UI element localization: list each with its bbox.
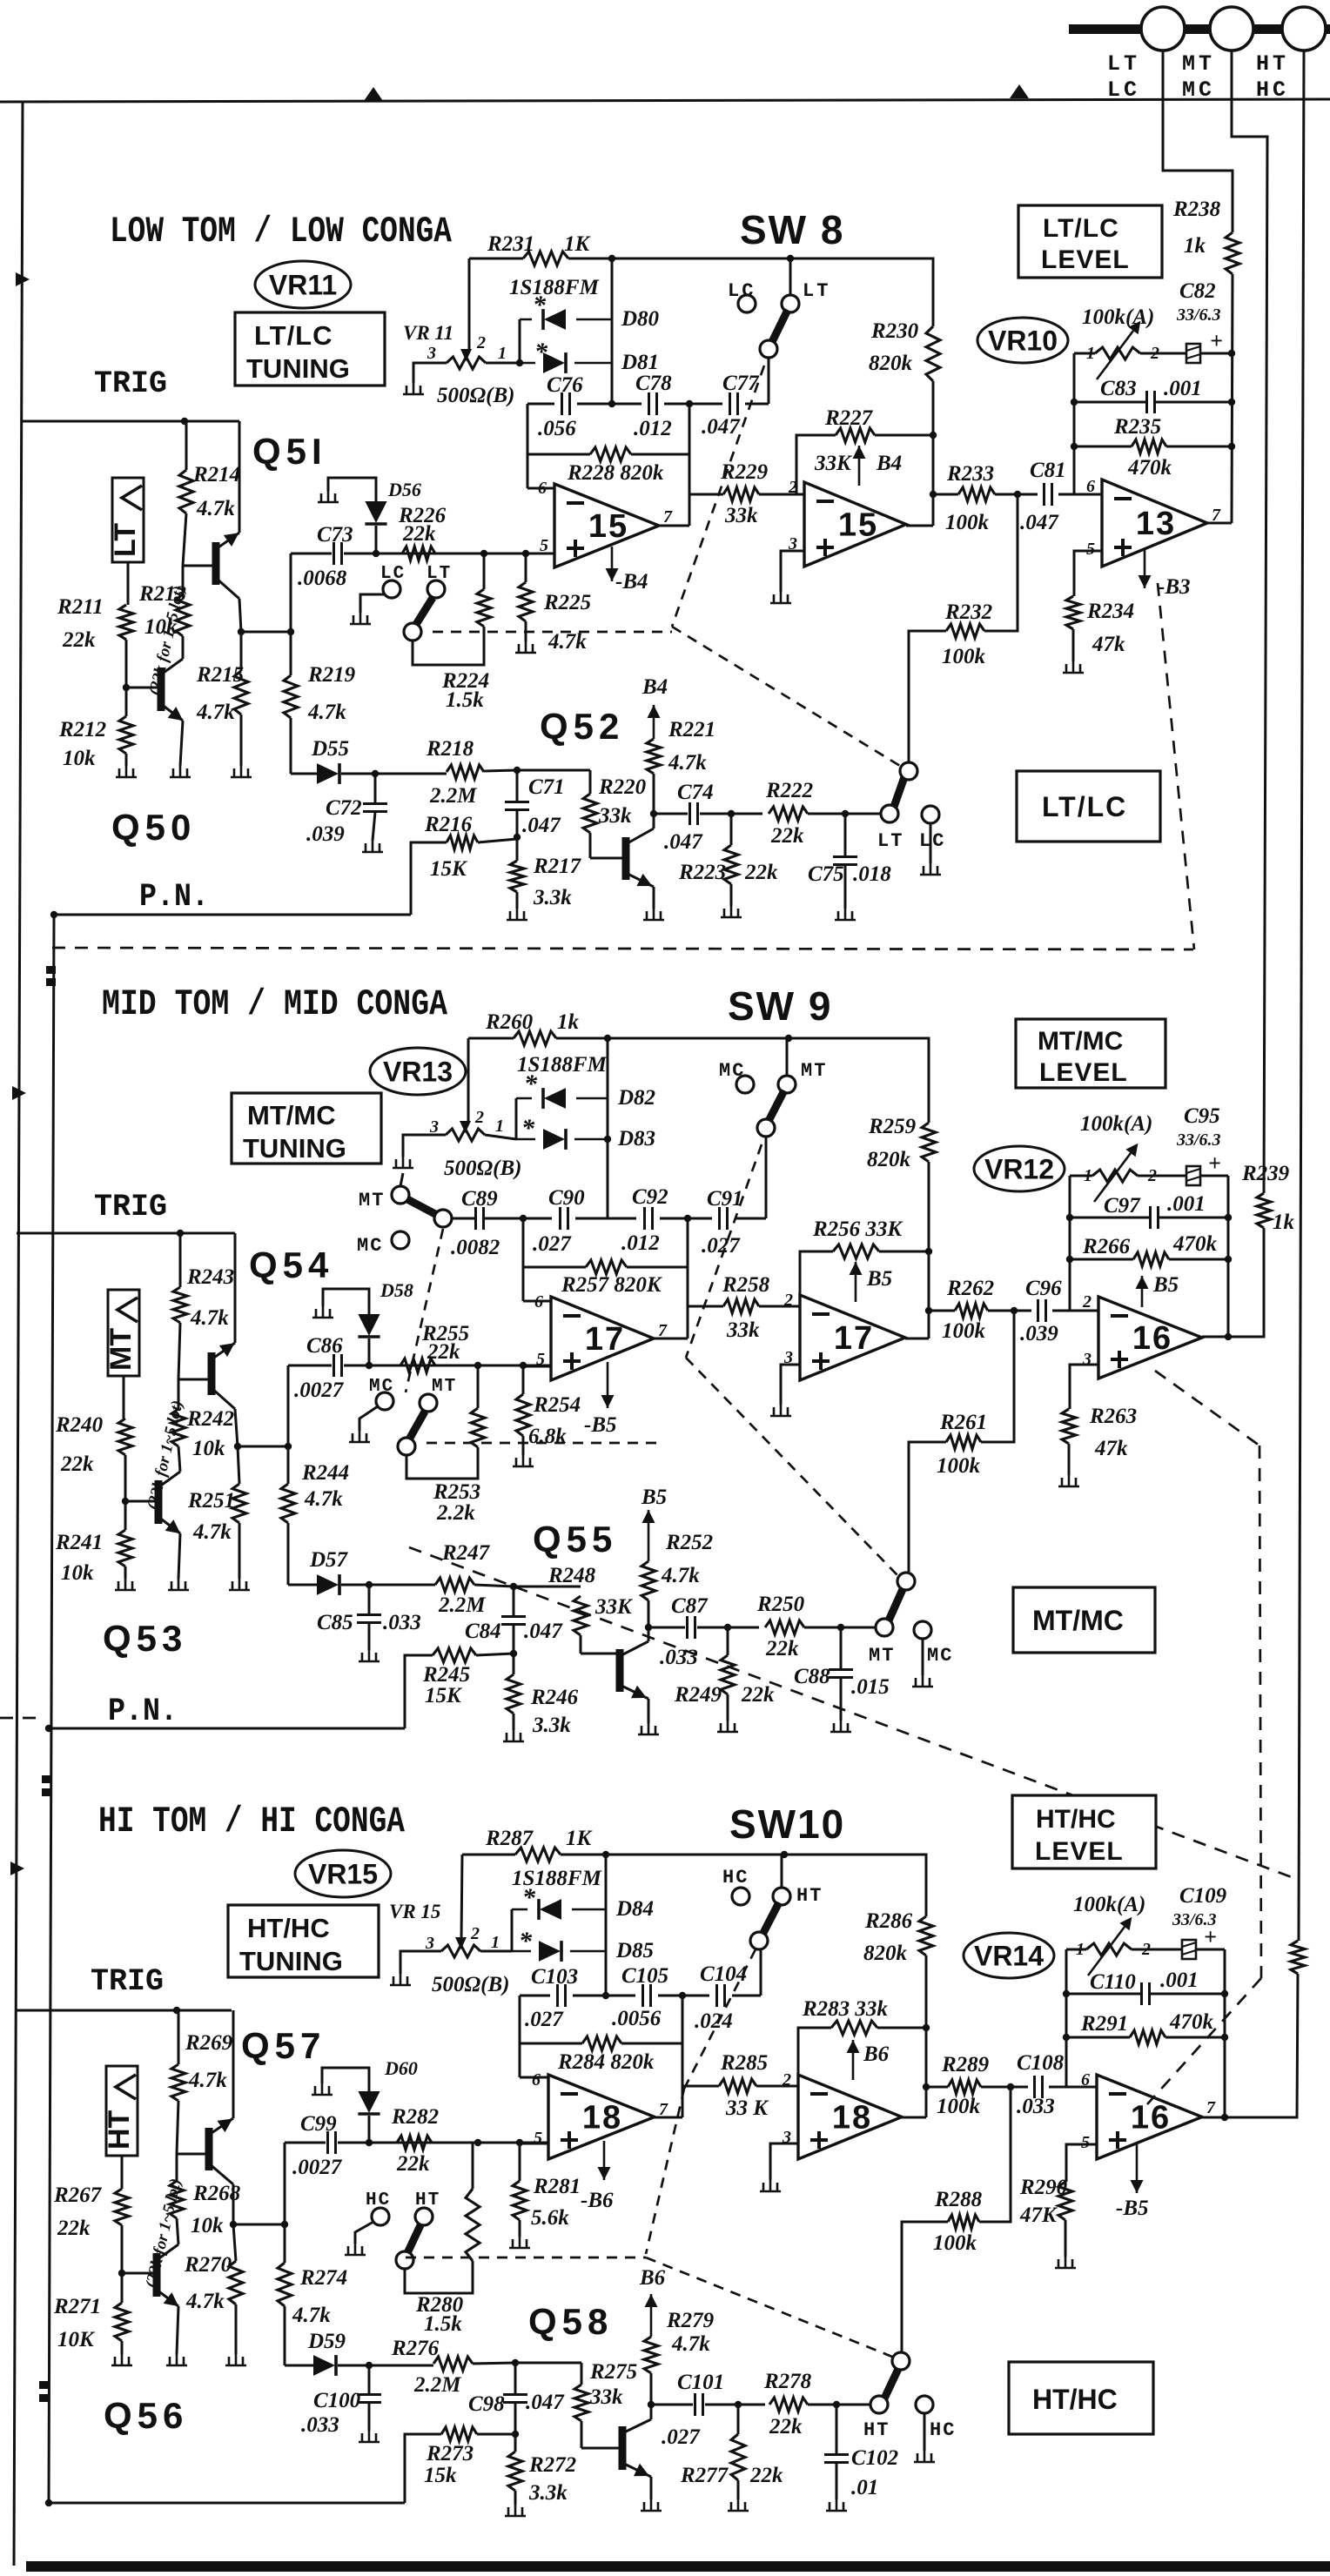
svg-text:C76: C76 bbox=[547, 373, 583, 397]
svg-text:.0082: .0082 bbox=[451, 1236, 500, 1259]
svg-text:4.7k: 4.7k bbox=[192, 1520, 232, 1544]
wire bbox=[735, 1218, 766, 1220]
ground bbox=[717, 1721, 738, 1732]
junction bbox=[281, 2221, 288, 2228]
capacitor C83 bbox=[1100, 377, 1202, 413]
wire bbox=[400, 1951, 441, 1974]
junction bbox=[1225, 1256, 1232, 1263]
wire gang link bbox=[427, 1442, 662, 1445]
resistor R217 bbox=[510, 855, 582, 909]
svg-text:R219: R219 bbox=[307, 663, 356, 687]
resistor R286 bbox=[863, 1909, 933, 1965]
wire bbox=[232, 2184, 235, 2224]
wire bbox=[653, 887, 655, 909]
wire bbox=[511, 1909, 514, 1951]
wire bbox=[284, 2224, 286, 2263]
resistor R220 bbox=[583, 775, 647, 833]
svg-text:C109: C109 bbox=[1179, 1884, 1227, 1908]
wire bbox=[759, 493, 796, 496]
node pin 1 bbox=[495, 1117, 504, 1136]
junction bbox=[785, 1035, 792, 1042]
node MC contact bbox=[369, 1377, 394, 1410]
wire bbox=[403, 1135, 446, 1157]
svg-text:.018: .018 bbox=[853, 862, 891, 886]
node section title bbox=[110, 211, 453, 252]
svg-text:MT: MT bbox=[432, 1377, 457, 1397]
svg-text:18: 18 bbox=[832, 2100, 872, 2137]
resistor R267 bbox=[53, 2184, 129, 2240]
wire bbox=[238, 1446, 239, 1484]
wire bbox=[462, 1854, 515, 1856]
wire bbox=[485, 1135, 516, 1139]
capacitor C96 bbox=[1020, 1277, 1062, 1345]
wire bbox=[659, 525, 689, 527]
wire bbox=[770, 2143, 798, 2180]
junction bbox=[510, 1650, 517, 1657]
svg-text:820k: 820k bbox=[867, 1148, 911, 1171]
op-amp 15a bbox=[554, 484, 659, 567]
wire bbox=[798, 2028, 831, 2086]
svg-text:33k: 33k bbox=[726, 1318, 760, 1342]
ground bbox=[515, 641, 536, 653]
wire bbox=[461, 1855, 462, 1939]
svg-text:2: 2 bbox=[782, 2070, 791, 2090]
capacitor C84 bbox=[465, 1617, 563, 1644]
junction bbox=[45, 1725, 52, 1732]
wire bbox=[239, 599, 241, 632]
svg-text:15K: 15K bbox=[430, 857, 468, 881]
junction bbox=[366, 2139, 373, 2146]
wire bbox=[922, 1639, 924, 1675]
node arrow bbox=[364, 87, 383, 101]
diode D81 bbox=[520, 351, 659, 374]
svg-text:33/6.3: 33/6.3 bbox=[1176, 305, 1221, 325]
wire bbox=[516, 892, 519, 909]
wire bbox=[556, 1037, 789, 1040]
svg-text:Q55: Q55 bbox=[533, 1519, 617, 1560]
junction bbox=[1225, 1333, 1232, 1340]
svg-text:HC: HC bbox=[722, 1867, 749, 1888]
svg-text:1k: 1k bbox=[557, 1010, 580, 1034]
resistor R222 bbox=[765, 779, 813, 848]
resistor R258 bbox=[722, 1273, 770, 1342]
node pin 3 bbox=[782, 2128, 791, 2147]
op-amp 17b bbox=[800, 1295, 905, 1380]
junction bbox=[520, 1362, 527, 1369]
svg-text:Q57: Q57 bbox=[241, 2025, 326, 2066]
svg-text:C95: C95 bbox=[1184, 1104, 1220, 1128]
ground bbox=[359, 1650, 380, 1661]
wire bbox=[1070, 1258, 1133, 1261]
node Q53 label bbox=[103, 1618, 187, 1659]
junction bbox=[230, 2221, 237, 2228]
wire bbox=[514, 2491, 517, 2505]
junction bbox=[474, 2139, 481, 2146]
svg-text:C90: C90 bbox=[548, 1186, 585, 1210]
resistor R285 bbox=[719, 2051, 769, 2120]
junction bbox=[474, 1362, 481, 1369]
ground bbox=[641, 2499, 662, 2511]
wire bbox=[840, 1627, 843, 1669]
svg-text:R245: R245 bbox=[422, 1663, 470, 1687]
wire bbox=[1052, 1310, 1070, 1312]
svg-text:33/6.3: 33/6.3 bbox=[1176, 1130, 1221, 1150]
wire bbox=[522, 1218, 525, 1301]
svg-text:33/6.3: 33/6.3 bbox=[1172, 1910, 1217, 1929]
op-amp 16 bbox=[1097, 2075, 1202, 2159]
wire bbox=[648, 1627, 685, 1629]
svg-text:22k: 22k bbox=[749, 2464, 783, 2487]
op-amp 17a bbox=[551, 1297, 654, 1380]
svg-text:LC: LC bbox=[728, 280, 756, 302]
svg-text:10k: 10k bbox=[191, 2214, 224, 2237]
wire bbox=[902, 2116, 926, 2119]
svg-text:.047: .047 bbox=[526, 2391, 565, 2414]
svg-text:.001: .001 bbox=[1160, 1969, 1199, 1992]
svg-text:2.2M: 2.2M bbox=[438, 1593, 486, 1617]
ground bbox=[1055, 2257, 1076, 2268]
svg-text:TRIG: TRIG bbox=[94, 1190, 167, 1224]
resistor R290 bbox=[1019, 2176, 1072, 2227]
wire bbox=[1225, 1974, 1298, 2117]
svg-text:100k: 100k bbox=[945, 511, 990, 534]
wire bbox=[1074, 352, 1095, 355]
wire bbox=[689, 404, 691, 526]
junction bbox=[645, 1624, 652, 1631]
node level box bbox=[1012, 1795, 1156, 1868]
node Q58 label bbox=[528, 2301, 613, 2342]
wire bbox=[737, 2480, 740, 2499]
wire bbox=[344, 1365, 551, 1367]
wire bbox=[1228, 1228, 1264, 1337]
wire bbox=[581, 2363, 583, 2385]
node pin 1 bbox=[498, 344, 507, 363]
svg-text:470k: 470k bbox=[1127, 456, 1172, 480]
junction bbox=[925, 1307, 932, 1314]
wire HT net bbox=[1299, 50, 1304, 1941]
svg-text:1k: 1k bbox=[1184, 234, 1206, 258]
wire gang link bbox=[433, 631, 672, 634]
resistor R279 bbox=[644, 2309, 715, 2373]
svg-text:22k: 22k bbox=[402, 522, 436, 546]
resistor R276 bbox=[391, 2337, 473, 2397]
node pin 2 bbox=[788, 478, 797, 497]
node pin 2 bbox=[1141, 1940, 1151, 1959]
wire bbox=[844, 814, 847, 856]
wire bbox=[988, 1310, 1031, 1312]
svg-text:LC: LC bbox=[919, 830, 945, 852]
svg-text:HT: HT bbox=[1256, 51, 1289, 77]
svg-text:SW10: SW10 bbox=[729, 1801, 845, 1847]
svg-text:.027: .027 bbox=[525, 2008, 564, 2031]
wire bbox=[373, 812, 375, 841]
svg-text:R256 33K: R256 33K bbox=[812, 1218, 903, 1241]
node VR10 oval bbox=[977, 318, 1068, 363]
node pin 2 bbox=[470, 1924, 480, 1943]
resistor R268 bbox=[170, 2181, 241, 2237]
wire section boundary bbox=[1158, 583, 1194, 949]
svg-text:4.7k: 4.7k bbox=[196, 701, 235, 724]
junction bbox=[650, 810, 657, 817]
svg-text:.047: .047 bbox=[524, 1620, 563, 1643]
wire bbox=[784, 1855, 926, 1916]
capacitor C108 bbox=[1017, 2051, 1065, 2118]
wire bbox=[125, 754, 128, 766]
wire bbox=[568, 258, 790, 260]
wire bbox=[756, 2085, 798, 2088]
svg-text:.027: .027 bbox=[662, 2425, 701, 2449]
wire gang link bbox=[672, 627, 900, 766]
svg-text:100k: 100k bbox=[942, 645, 986, 668]
wire bbox=[338, 2142, 548, 2144]
power -B5 bbox=[601, 1362, 615, 1408]
wire bbox=[513, 1714, 515, 1730]
svg-text:2: 2 bbox=[783, 1291, 793, 1310]
wire bbox=[621, 2043, 682, 2045]
wire bbox=[527, 487, 554, 490]
wire bbox=[607, 1038, 609, 1218]
svg-text:LT/LC: LT/LC bbox=[1042, 791, 1127, 822]
svg-text:R271: R271 bbox=[53, 2295, 101, 2318]
power B6 bbox=[645, 2294, 658, 2337]
resistor R223 bbox=[678, 845, 778, 884]
node 100k(A) label bbox=[1082, 305, 1154, 329]
node B6 label bbox=[863, 2043, 890, 2066]
svg-text:500Ω(B): 500Ω(B) bbox=[437, 384, 514, 407]
svg-text:C97: C97 bbox=[1104, 1194, 1141, 1218]
wire bbox=[180, 721, 183, 766]
junction bbox=[123, 684, 130, 691]
node HC contact bbox=[916, 2396, 956, 2441]
wire bbox=[519, 319, 521, 363]
svg-text:VR 11: VR 11 bbox=[403, 322, 453, 344]
svg-text:3.3k: 3.3k bbox=[533, 886, 572, 909]
node lot note bbox=[142, 2177, 185, 2290]
svg-text:R290: R290 bbox=[1019, 2176, 1068, 2199]
node pin 2 bbox=[782, 2070, 791, 2090]
node MT label bbox=[1182, 51, 1215, 77]
svg-text:MC: MC bbox=[927, 1645, 953, 1667]
junction bbox=[781, 1851, 788, 1858]
node asterisk bbox=[524, 1070, 538, 1098]
node SW9 label bbox=[728, 983, 832, 1029]
wire bbox=[177, 2306, 178, 2354]
svg-text:VR11: VR11 bbox=[269, 270, 337, 301]
wire bbox=[627, 1266, 688, 1269]
wire bbox=[182, 636, 185, 659]
node VR14 oval bbox=[964, 1933, 1054, 1978]
svg-text:.033: .033 bbox=[383, 1611, 421, 1634]
wire gang link bbox=[646, 2257, 897, 2358]
wire bbox=[727, 1694, 729, 1721]
wire bbox=[1207, 522, 1232, 525]
wire bbox=[360, 594, 385, 613]
svg-text:C99: C99 bbox=[300, 2112, 337, 2136]
wire bbox=[879, 1251, 929, 1253]
node HC label bbox=[1256, 77, 1289, 103]
diode D58 bbox=[358, 1279, 413, 1337]
ground bbox=[229, 1579, 250, 1590]
svg-text:47K: 47K bbox=[1019, 2204, 1058, 2227]
power -B5 bbox=[1131, 2143, 1144, 2193]
wire bbox=[527, 453, 590, 456]
resistor R224 bbox=[441, 589, 491, 712]
transistor Q51 bbox=[183, 527, 243, 599]
wire bbox=[288, 1365, 332, 1367]
switch SW8 bbox=[760, 280, 830, 358]
wire bbox=[472, 2143, 474, 2189]
node pin 2 bbox=[1082, 1292, 1092, 1311]
wire bbox=[413, 627, 484, 665]
wire bbox=[1069, 1176, 1071, 1311]
junction bbox=[181, 418, 188, 425]
wire bbox=[288, 1584, 317, 1587]
node Q52 label bbox=[540, 706, 624, 747]
ground bbox=[166, 2354, 187, 2365]
capacitor C72 bbox=[306, 796, 387, 846]
svg-text:MC: MC bbox=[1182, 77, 1215, 103]
svg-text:MT/MC: MT/MC bbox=[1032, 1605, 1124, 1636]
node pin 7 bbox=[1206, 2098, 1216, 2117]
node level box bbox=[1018, 205, 1162, 278]
node Q56 label bbox=[104, 2395, 188, 2436]
wire bbox=[323, 1289, 369, 1314]
wire bbox=[928, 1162, 930, 1338]
svg-text:R274: R274 bbox=[299, 2266, 347, 2290]
node pin 6 bbox=[532, 2070, 541, 2090]
wire bbox=[781, 551, 804, 592]
ground bbox=[168, 1579, 189, 1590]
svg-text:.033: .033 bbox=[660, 1646, 698, 1669]
wire gang link bbox=[406, 2257, 646, 2259]
wire bbox=[933, 493, 958, 496]
wire bbox=[654, 813, 688, 815]
wire bbox=[368, 2116, 371, 2143]
node HC contact bbox=[366, 2190, 391, 2225]
svg-text:22k: 22k bbox=[57, 2217, 91, 2240]
resistor R226 bbox=[398, 504, 447, 560]
wire bbox=[844, 865, 847, 909]
node Q55 label bbox=[533, 1519, 617, 1560]
ground bbox=[760, 2180, 781, 2191]
junction bbox=[50, 911, 57, 918]
svg-text:.033: .033 bbox=[1017, 2095, 1055, 2118]
node pin 1 bbox=[491, 1933, 500, 1952]
wire bbox=[732, 1995, 761, 1997]
node out box bbox=[1017, 771, 1160, 842]
resistor R234 bbox=[1066, 596, 1134, 656]
node LC label bbox=[1107, 77, 1140, 103]
junction bbox=[1066, 1214, 1073, 1221]
svg-text:VR12: VR12 bbox=[984, 1154, 1054, 1185]
junction bbox=[285, 1443, 292, 1450]
wire bbox=[995, 493, 1038, 496]
wire tick bbox=[39, 2381, 49, 2389]
svg-text:TUNING: TUNING bbox=[239, 1946, 343, 1976]
svg-text:Q52: Q52 bbox=[540, 706, 624, 747]
wire bbox=[177, 2101, 178, 2154]
svg-text:4.7k: 4.7k bbox=[671, 2332, 710, 2356]
svg-text:Q50: Q50 bbox=[111, 807, 196, 848]
junction bbox=[724, 1624, 731, 1631]
wire bbox=[789, 1038, 929, 1123]
svg-text:R225: R225 bbox=[543, 591, 591, 614]
resistor R214 bbox=[179, 463, 240, 520]
ground bbox=[312, 1306, 333, 1318]
svg-text:7: 7 bbox=[1206, 2098, 1216, 2117]
resistor R288 bbox=[933, 2188, 983, 2255]
svg-text:.024: .024 bbox=[695, 2009, 733, 2033]
wire bbox=[359, 1406, 378, 1431]
svg-text:VR13: VR13 bbox=[383, 1057, 453, 1088]
wire bbox=[484, 770, 517, 771]
junction bbox=[1221, 1990, 1228, 1997]
svg-text:R250: R250 bbox=[756, 1593, 805, 1616]
svg-text:500Ω(B): 500Ω(B) bbox=[432, 1973, 509, 1996]
wire bbox=[768, 358, 770, 404]
resistor R281 bbox=[513, 2175, 581, 2230]
svg-text:C75: C75 bbox=[808, 862, 844, 886]
wire bbox=[1073, 353, 1076, 494]
power -B3 bbox=[1139, 548, 1152, 588]
svg-text:MT: MT bbox=[359, 1190, 385, 1211]
junction bbox=[366, 1362, 373, 1369]
svg-text:R257 820K: R257 820K bbox=[561, 1273, 663, 1297]
wire bbox=[467, 1038, 470, 1123]
svg-text:R247: R247 bbox=[441, 1541, 491, 1565]
wire bbox=[522, 1365, 525, 1394]
node tuning box bbox=[235, 312, 385, 386]
svg-text:MID TOM / MID CONGA: MID TOM / MID CONGA bbox=[102, 983, 448, 1025]
resistor R266 bbox=[1082, 1232, 1218, 1266]
wire bbox=[1066, 1993, 1140, 1996]
node asterisk bbox=[533, 291, 547, 319]
svg-text:.047: .047 bbox=[702, 415, 741, 439]
svg-text:C103: C103 bbox=[531, 1965, 578, 1989]
svg-text:C81: C81 bbox=[1030, 459, 1066, 482]
wire bbox=[1202, 2116, 1225, 2119]
wire bbox=[1165, 2036, 1225, 2039]
switch HT/HC out bbox=[870, 2352, 910, 2413]
svg-text:R227: R227 bbox=[824, 406, 874, 430]
svg-text:R276: R276 bbox=[391, 2337, 440, 2360]
svg-text:5.6k: 5.6k bbox=[531, 2206, 569, 2230]
svg-text:HI TOM / HI CONGA: HI TOM / HI CONGA bbox=[98, 1801, 406, 1842]
ground bbox=[362, 841, 383, 852]
node B4 label bbox=[876, 452, 902, 475]
junction bbox=[1071, 443, 1078, 450]
switch HC/HT select bbox=[396, 2190, 440, 2269]
svg-text:100k: 100k bbox=[942, 1319, 986, 1343]
ground bbox=[116, 766, 137, 777]
diode D59 bbox=[307, 2330, 346, 2376]
capacitor C97 bbox=[1104, 1192, 1206, 1229]
svg-text:R214: R214 bbox=[192, 463, 240, 486]
svg-text:C88: C88 bbox=[794, 1665, 830, 1688]
junction bbox=[684, 1215, 691, 1222]
wire bbox=[178, 2010, 180, 2064]
svg-text:820k: 820k bbox=[863, 1942, 908, 1965]
ground bbox=[643, 909, 664, 920]
svg-text:R233: R233 bbox=[946, 462, 994, 486]
node arrow bbox=[12, 1086, 26, 1100]
node pin 1 bbox=[1076, 1940, 1085, 1959]
capacitor C81 bbox=[1020, 459, 1066, 534]
node pin 3 bbox=[429, 1117, 439, 1137]
svg-text:3.3k: 3.3k bbox=[528, 2481, 568, 2505]
wire bbox=[515, 1098, 518, 1139]
svg-text:R278: R278 bbox=[763, 2370, 812, 2393]
